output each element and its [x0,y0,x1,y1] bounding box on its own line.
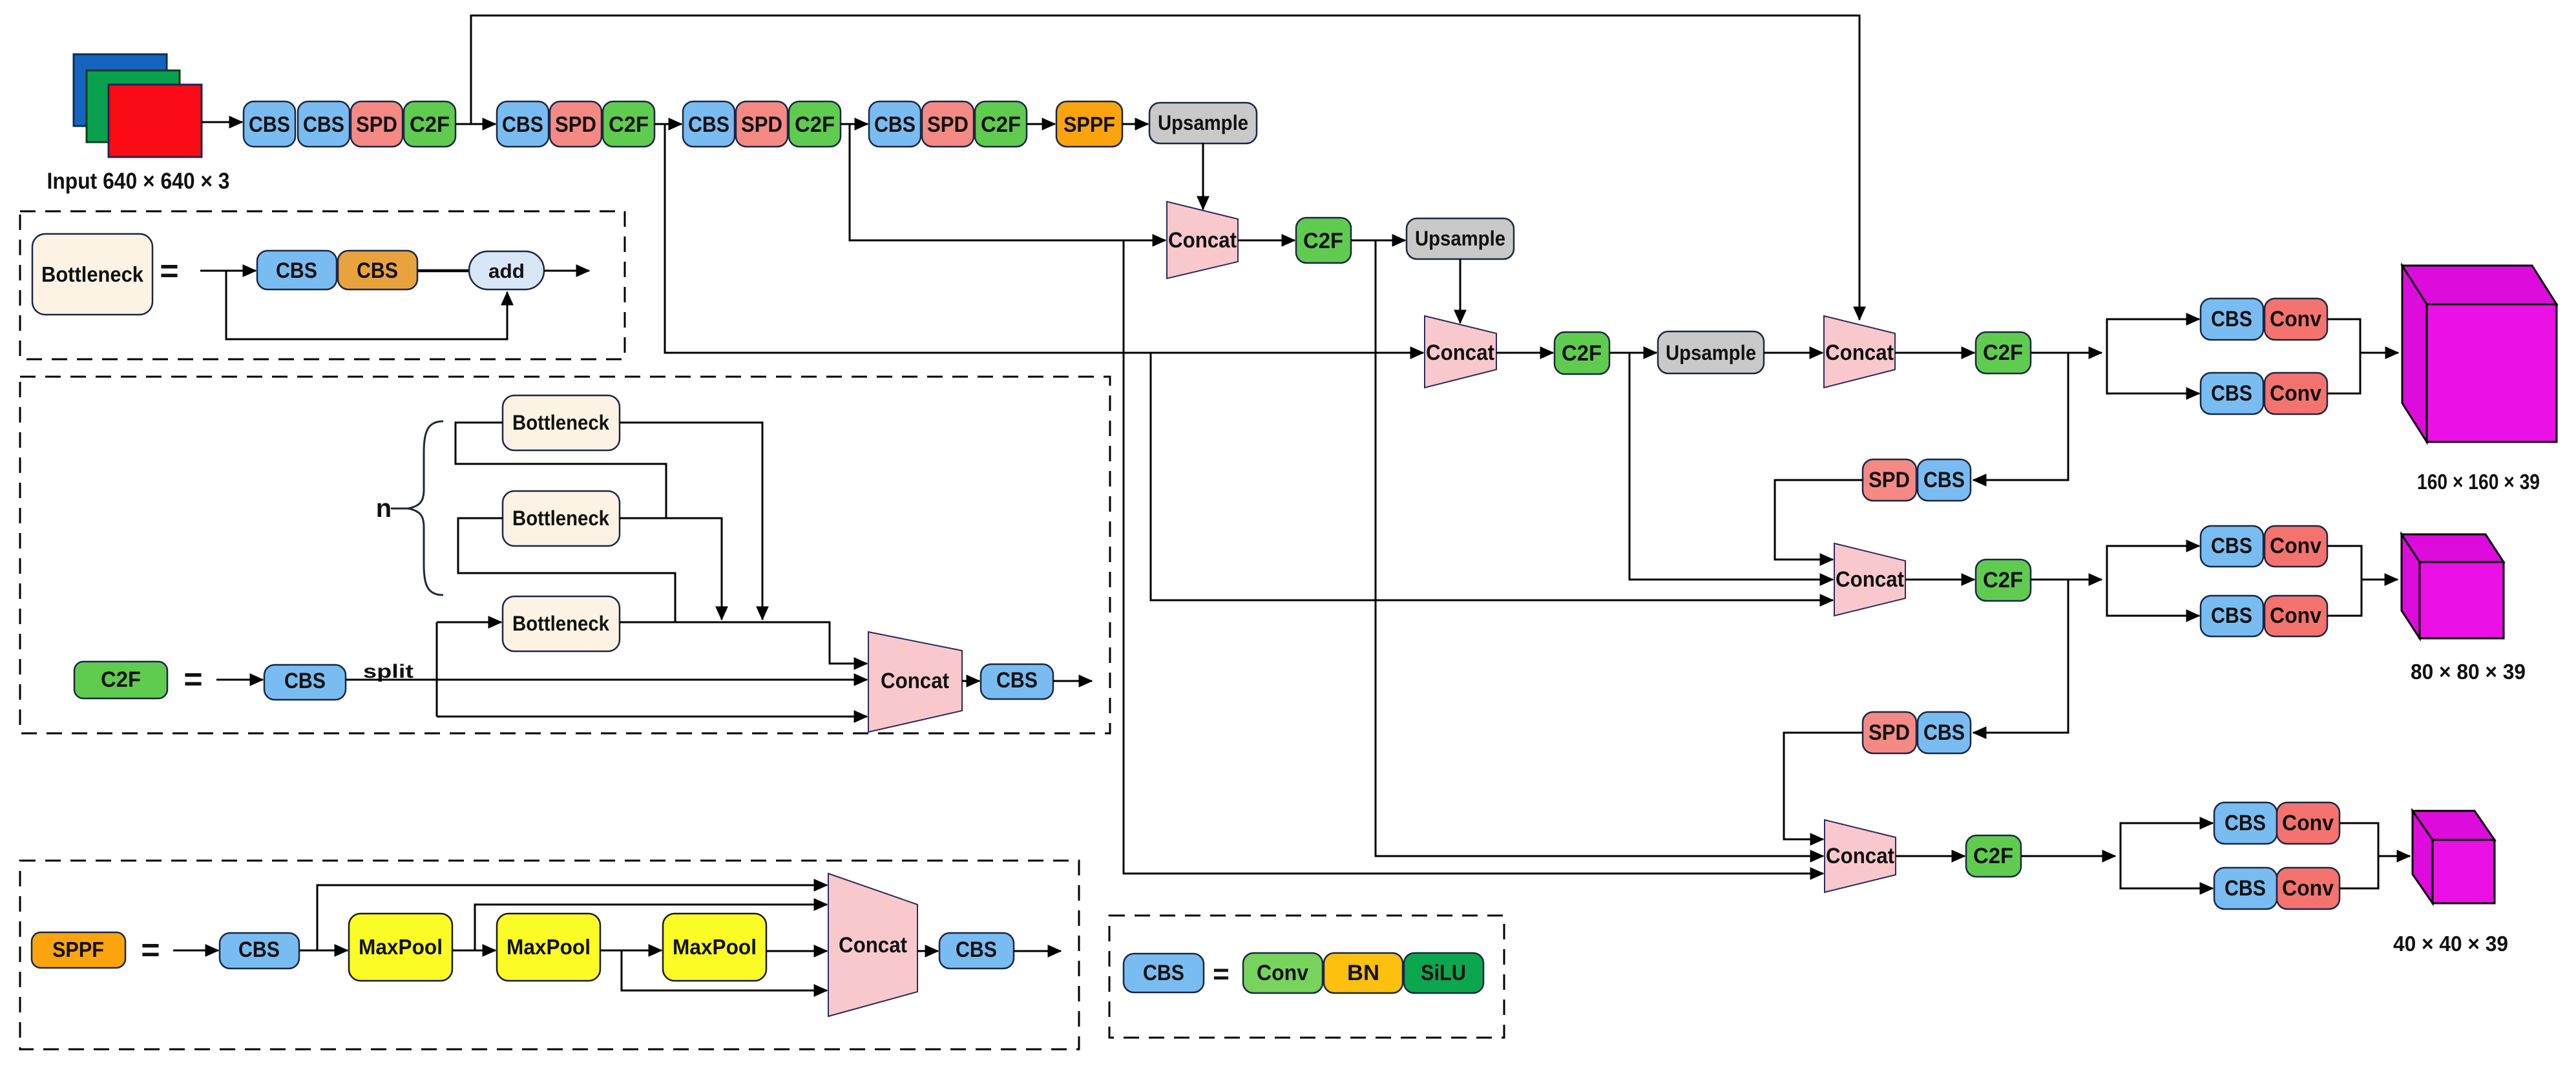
backbone CBS5 [869,101,921,147]
add pill [469,251,544,289]
svg-text:Concat: Concat [839,933,907,958]
cube40 side face [2413,811,2433,903]
svg-text:CBS: CBS [1143,961,1184,985]
head80 top CBS [2201,526,2263,567]
wire head split bracket 80 [2107,546,2199,580]
wire junction D down to Concat5 mid [1376,240,1823,856]
cube40 front face [2433,840,2495,903]
SPPF legend block [32,932,125,968]
svg-text:MaxPool: MaxPool [673,935,757,959]
def Bottleneck 2 [503,491,620,546]
svg-text:SPD: SPD [927,112,969,137]
svg-text:CBS: CBS [956,937,997,962]
head40 bottom Conv [2277,868,2340,909]
svg-text:40 × 40 × 39: 40 × 40 × 39 [2393,932,2508,956]
wire sppf CBS to MaxPool1 [299,950,348,952]
wire sppf def output [1014,950,1061,952]
svg-text:Upsample: Upsample [1158,111,1248,134]
wire head160 join to cube [2327,319,2360,393]
svg-text:CBS: CBS [874,112,916,137]
head160 top CBS [2201,298,2263,340]
cbs def SiLU [1404,953,1483,993]
input image stack red layer [109,85,202,157]
wire C2F3 to CBS5 [841,123,868,125]
svg-text:SPD: SPD [555,112,596,137]
svg-text:SPD: SPD [356,112,397,137]
svg-text:Conv: Conv [2270,307,2321,331]
cube160 top face [2402,266,2557,304]
wire split vertical [436,622,438,717]
wire MaxPool2 tap to Concat bottom [622,950,827,990]
SPD-CBS pair b CBS [1918,712,1971,753]
svg-text:Conv: Conv [2282,811,2334,835]
SPD-CBS pair a CBS [1918,459,1971,501]
svg-text:CBS: CBS [2225,876,2266,901]
backbone SPPF [1056,101,1122,147]
backbone C2F3 [789,101,841,147]
head160 bottom Conv [2265,373,2327,414]
wire bottleneck input [200,270,256,272]
bottleneck CBS blue [257,251,337,289]
wire MaxPool1 tap to Concat 2nd [475,905,827,950]
C2F legend block [74,662,167,698]
c2f def CBS [264,665,346,700]
wire C2F6 to Upsample3 [1609,352,1657,354]
Concat4 trapezoid [1834,543,1905,616]
svg-text:SPD: SPD [741,112,782,137]
svg-text:CBS: CBS [2211,534,2252,558]
wire Concat2 to C2F6 [1496,352,1553,354]
svg-text:MaxPool: MaxPool [359,935,443,959]
wire junction E down to Concat5 bottom [1124,240,1823,874]
svg-text:160 × 160 × 39: 160 × 160 × 39 [2417,470,2540,494]
backbone CBS2 [298,101,350,147]
wire junction B down to Concat2 [665,124,1423,353]
backbone C2F4 [975,101,1027,147]
wire Upsample1 down to Concat1 [1202,143,1204,209]
wire SPPF to Upsample1 [1122,123,1148,125]
backbone C2F2 [603,101,654,147]
svg-text:BN: BN [1347,961,1379,985]
svg-text:C2F: C2F [1303,229,1343,253]
svg-text:=: = [1213,958,1230,990]
wire Concat1 to C2F5 [1238,240,1295,242]
wire sppf input [173,950,218,952]
svg-text:C2F: C2F [1983,340,2023,365]
svg-text:Concat: Concat [1168,228,1237,253]
wire Upsample2 down to Concat2 [1460,259,1461,323]
neck C2F8 [1976,560,2031,601]
Concat def c2f trapezoid [868,632,962,732]
wire C2F4 to SPPF [1027,123,1055,125]
svg-text:CBS: CBS [2211,307,2252,331]
wire head split bracket 160 [2107,319,2199,353]
SPD-CBS pair a SPD [1863,459,1916,501]
Concat def sppf trapezoid [828,874,917,1016]
svg-text:Bottleneck: Bottleneck [512,411,609,434]
bottleneck CBS orange [338,251,417,289]
svg-text:CBS: CBS [996,668,1038,693]
svg-text:CBS: CBS [284,669,326,693]
svg-text:Bottleneck: Bottleneck [41,262,144,286]
wire Concat3 to C2F7 [1895,352,1974,354]
Concat3 trapezoid [1824,316,1895,388]
svg-text:CBS: CBS [688,112,729,137]
def Bottleneck 3 [503,596,620,651]
svg-text:Bottleneck: Bottleneck [512,612,609,635]
svg-text:Concat: Concat [1826,844,1894,868]
wire split main line to Concat mid [346,679,867,681]
head160 bottom CBS [2201,373,2263,414]
wire B1 out drop to bus [620,423,762,620]
wire C2F7 to head split 160 [2031,352,2102,354]
svg-text:CBS: CBS [357,258,398,283]
wire CBS orange to add [417,269,469,273]
svg-text:C2F: C2F [981,112,1021,137]
svg-text:n: n [376,494,392,523]
cbs def BN [1324,953,1403,993]
wire junction F down to Concat4 mid [1629,353,1833,580]
wire C2F1 to CBS3 with top-line junction [456,123,496,125]
wire c2f input [216,679,263,681]
MaxPool 1 [349,914,452,981]
svg-text:CBS: CBS [2211,603,2252,628]
wire SPD b to Concat5 top [1784,733,1863,839]
backbone SPD3 [736,101,788,147]
backbone CBS1 [244,101,295,147]
svg-text:CBS: CBS [1923,720,1965,745]
svg-text:C2F: C2F [101,667,141,692]
wire bottleneck residual [226,271,507,339]
head80 bottom CBS [2201,596,2263,636]
sppf def CBS out [939,933,1014,969]
wire SPD a to Concat4 top [1775,480,1863,560]
cube160 side face [2402,266,2427,442]
svg-text:C2F: C2F [1973,844,2013,868]
cube80 top face [2402,534,2504,562]
wire add output [544,270,589,272]
backbone CBS3 [497,101,549,147]
wire MaxPool1 to MaxPool2 [452,950,496,952]
Upsample2 [1407,218,1514,259]
wire input to CBS1 [202,121,242,123]
svg-text:=: = [183,661,202,697]
svg-text:Concat: Concat [1825,340,1894,365]
svg-text:CBS: CBS [249,112,290,137]
wire C2F7 down to SPD-CBS a [1973,353,2068,480]
wire split to bottleneck3 [437,622,501,623]
cbs def Conv [1243,953,1323,993]
wire B3 out bus to Concat top [620,622,867,664]
svg-text:=: = [160,253,178,289]
cube80 front face [2420,562,2504,638]
svg-text:Upsample: Upsample [1415,227,1505,250]
wire split bottom bypass to Concat bottom [437,716,867,718]
wire junction G down to Concat4 bottom [1151,353,1833,600]
wire head split bracket 40 [2120,823,2213,856]
svg-text:Conv: Conv [2282,876,2334,901]
MaxPool 3 [663,914,766,981]
wire B3 out to B2 in [458,518,675,622]
wire MaxPool2 to MaxPool3 [600,950,662,952]
neck C2F9 [1966,835,2021,877]
neck C2F5 [1296,218,1351,263]
head40 top CBS [2214,802,2277,844]
svg-text:Concat: Concat [881,669,949,693]
Concat1 trapezoid [1167,202,1238,278]
svg-text:Concat: Concat [1836,567,1904,592]
svg-text:C2F: C2F [1983,568,2023,592]
wire head40 join to cube [2340,823,2378,888]
backbone C2F1 [404,101,456,147]
svg-text:Concat: Concat [1426,340,1494,365]
wire long top line to Concat3 [471,16,1859,320]
svg-text:CBS: CBS [502,112,543,137]
wire C2F2 to CBS4 [654,123,682,125]
wire C2F5 to Upsample2 [1351,240,1405,242]
brace n group [391,421,443,595]
wire concat sppf to CBS out [917,950,938,952]
cube40 top face [2413,811,2495,840]
head40 bottom CBS [2214,868,2277,909]
svg-text:CBS: CBS [303,112,344,137]
svg-text:Conv: Conv [2270,603,2321,628]
Upsample1 [1149,103,1257,143]
CBS legend block [1124,954,1204,992]
wire Concat5 to C2F9 [1896,855,1965,857]
wire Upsample3 to Concat3 [1764,352,1823,354]
svg-text:CBS: CBS [2211,381,2252,406]
svg-text:CBS: CBS [1923,468,1965,492]
Bottleneck definition dashed box [20,211,625,359]
wire concat def to CBS out [962,680,979,682]
head40 top Conv [2277,802,2340,844]
input image stack blue layer [74,54,167,126]
neck C2F7 [1976,332,2031,373]
svg-text:Conv: Conv [2270,381,2321,406]
C2F definition dashed box [20,377,1110,733]
svg-text:SPPF: SPPF [52,937,104,961]
svg-text:MaxPool: MaxPool [507,935,591,959]
svg-text:C2F: C2F [410,112,450,137]
input image stack green layer [87,70,180,142]
Concat2 trapezoid [1425,316,1496,388]
head80 bottom Conv [2265,596,2327,636]
svg-text:=: = [141,932,160,968]
cube160 front face [2427,304,2557,442]
SPD-CBS pair b SPD [1863,712,1916,753]
wire B2 out to B1 in [456,423,722,518]
head80 top Conv [2265,526,2327,567]
svg-text:add: add [488,260,525,282]
wire MaxPool3 to Concat mid [766,950,827,952]
Bottleneck legend block [32,234,152,315]
wire C2F9 to head split 40 [2021,855,2115,857]
svg-text:80 × 80 × 39: 80 × 80 × 39 [2411,660,2526,684]
svg-text:CBS: CBS [276,258,317,283]
svg-text:SPD: SPD [1869,720,1910,745]
svg-text:CBS: CBS [238,937,280,962]
svg-text:SPD: SPD [1869,468,1910,492]
neck C2F6 [1555,332,1609,374]
wire junction C down to Concat1 [850,124,1166,240]
wire B2 out drop to bus [620,518,722,620]
SPPF definition dashed box [20,861,1079,1049]
wire C2F8 to head split 80 [2031,579,2102,581]
svg-text:Upsample: Upsample [1666,341,1756,364]
backbone SPD2 [550,101,602,147]
head160 top Conv [2265,298,2327,340]
def Bottleneck 1 [503,395,620,450]
CBS definition dashed box [1109,916,1504,1038]
svg-text:SiLU: SiLU [1421,961,1466,985]
Upsample3 [1658,331,1764,373]
svg-text:Conv: Conv [1257,961,1308,985]
wire head80 join to cube [2327,546,2361,616]
wire Concat4 to C2F8 [1905,579,1974,581]
svg-text:Input 640 × 640 × 3: Input 640 × 640 × 3 [47,169,230,194]
svg-text:Conv: Conv [2270,534,2321,558]
sppf def CBS [220,933,299,969]
wire C2F8 down to SPD-CBS b [1973,580,2068,733]
Concat5 trapezoid [1825,820,1896,892]
svg-text:SPPF: SPPF [1063,112,1115,136]
svg-text:C2F: C2F [609,112,649,137]
backbone SPD1 [351,101,403,147]
wire sppf bypass to Concat top [317,885,827,950]
MaxPool 2 [497,914,600,981]
svg-text:Bottleneck: Bottleneck [512,507,609,530]
svg-text:C2F: C2F [795,112,835,137]
backbone CBS4 [683,101,735,147]
svg-text:C2F: C2F [1562,341,1602,366]
backbone SPD4 [922,101,974,147]
wire c2f def output [1053,680,1092,682]
svg-text:CBS: CBS [2225,811,2266,835]
c2f def CBS out [981,664,1053,699]
cube80 side face [2402,534,2420,638]
